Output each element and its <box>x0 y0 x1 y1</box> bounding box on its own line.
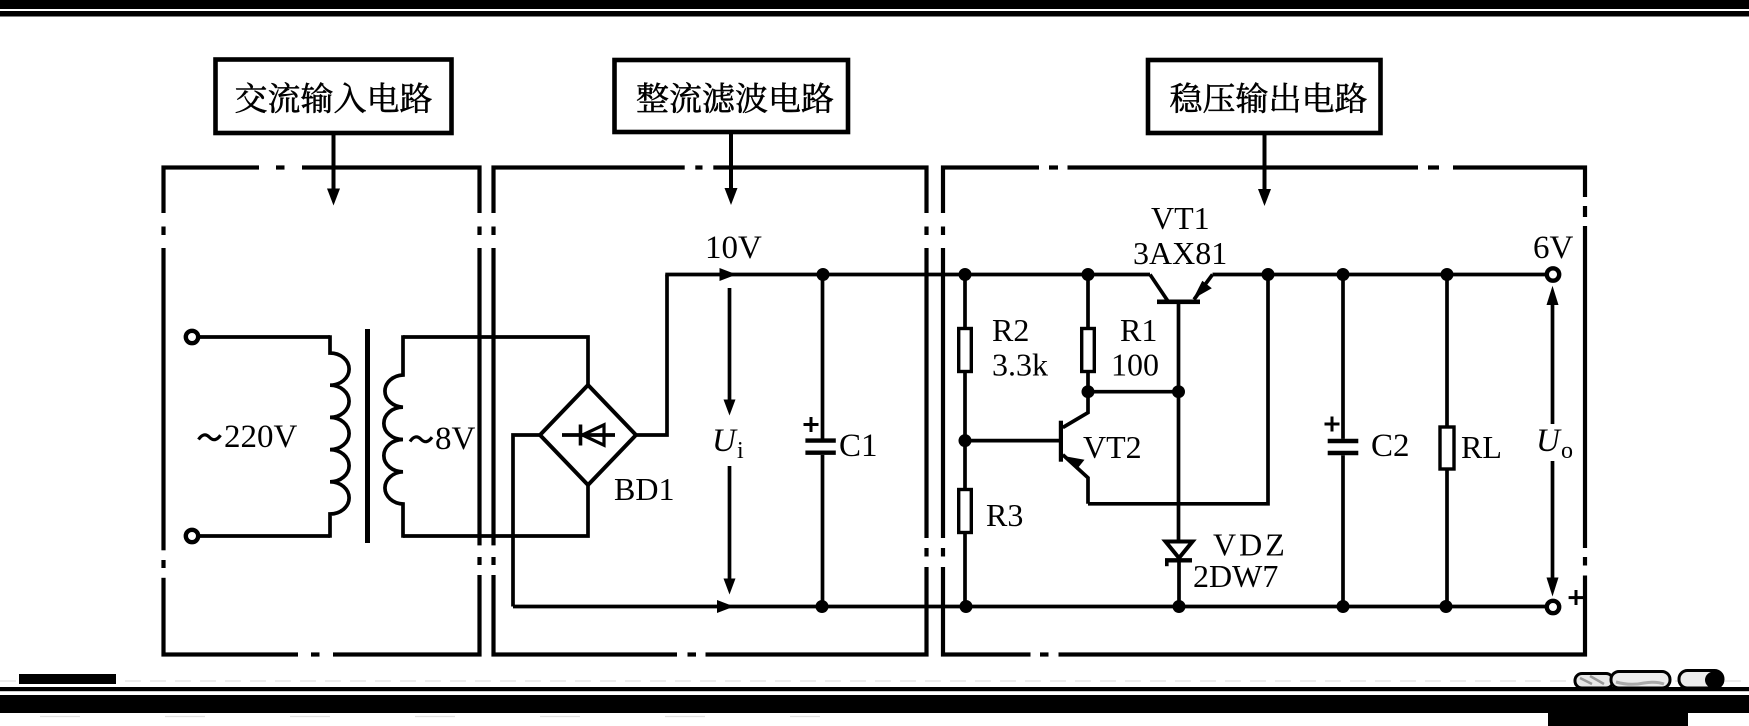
bottom thick bar <box>0 695 1749 713</box>
resistor R1 <box>1082 275 1095 392</box>
junction dot R3 bottom <box>960 600 973 613</box>
Ui indicator arrow upper <box>724 288 736 416</box>
capacitor C1 <box>805 275 835 607</box>
junction dot R1 bottom <box>1082 385 1095 398</box>
svg-text:6V: 6V <box>1533 230 1574 266</box>
title text: zhengliu lvbo dianlu <box>637 82 833 113</box>
svg-text:o: o <box>1561 438 1573 464</box>
label ~8V <box>410 437 432 442</box>
wire secondary top to bridge <box>403 337 588 385</box>
bottom faint dashes <box>40 716 820 718</box>
output terminal top 6V <box>1547 268 1559 280</box>
wire bridge right to top rail <box>636 275 667 436</box>
bottom rail <box>513 605 1546 609</box>
wire bridge left to bottom rail <box>513 435 540 607</box>
svg-text:3AX81: 3AX81 <box>1133 235 1227 271</box>
junction dot VDZ bottom <box>1173 600 1186 613</box>
junction dot C1 top <box>817 268 830 281</box>
transformer T primary winding <box>330 335 349 537</box>
section box: AC input circuit <box>160 164 483 658</box>
eraser icon middle piece <box>1611 672 1670 689</box>
transformer T secondary winding <box>384 335 403 537</box>
junction dot R1 top <box>1082 268 1095 281</box>
bottom small black bar left <box>19 674 116 684</box>
section box: rectifier filter circuit <box>490 164 930 658</box>
svg-text:100: 100 <box>1111 347 1159 383</box>
junction dot R2 top <box>959 268 972 281</box>
bottom thin rule <box>0 687 1749 691</box>
junction dot C2 top <box>1337 268 1350 281</box>
resistor RL <box>1440 275 1454 607</box>
C1 plus sign <box>804 417 819 432</box>
junction dot RL top <box>1441 268 1454 281</box>
output terminal bottom <box>1547 601 1559 613</box>
terminal circle input top <box>186 331 198 343</box>
label box: AC input circuit title <box>216 60 452 134</box>
junction dot feedback top <box>1262 268 1275 281</box>
top rail (right of VT1) <box>1213 273 1547 277</box>
junction dot R2/R3/VT2 base <box>959 434 972 447</box>
svg-text:8V: 8V <box>435 421 476 457</box>
bridge rectifier BD1 diamond <box>540 385 636 485</box>
chalk icon right <box>1679 671 1723 689</box>
arrow from AC input label to section 1 <box>327 133 340 206</box>
eraser icon left piece <box>1575 674 1613 689</box>
label ~220V <box>199 435 221 440</box>
top rail 10V (left of VT1) <box>665 273 1150 277</box>
junction dot RL bottom <box>1440 600 1453 613</box>
svg-text:3.3k: 3.3k <box>992 347 1048 383</box>
svg-text:220V: 220V <box>224 419 298 455</box>
capacitor C2 <box>1328 275 1359 607</box>
svg-text:10V: 10V <box>705 230 762 266</box>
wire primary bottom <box>199 534 330 538</box>
svg-text:BD1: BD1 <box>614 471 674 507</box>
Uo indicator arrow <box>1547 286 1559 597</box>
svg-text:U: U <box>712 423 738 459</box>
terminal circle input bottom <box>186 530 198 542</box>
BD1 inner diode <box>562 425 615 446</box>
svg-text:R1: R1 <box>1120 312 1157 348</box>
transformer core <box>365 329 370 543</box>
top border double bar <box>0 0 1749 9</box>
wire primary top <box>199 335 330 339</box>
wire R1 bottom to VT1 base <box>1088 390 1179 394</box>
section box: regulated output circuit <box>940 164 1589 658</box>
svg-text:R2: R2 <box>992 312 1029 348</box>
title text: wenya shuchu dianlu <box>1170 82 1366 113</box>
bottom right extension block <box>1548 711 1688 726</box>
svg-text:RL: RL <box>1461 429 1502 465</box>
top rail arrow <box>720 268 737 281</box>
C2 plus sign <box>1325 417 1340 432</box>
svg-text:2DW7: 2DW7 <box>1193 558 1278 594</box>
zener diode VDZ <box>1165 392 1193 607</box>
svg-text:R3: R3 <box>986 497 1023 533</box>
resistor R2 <box>959 275 972 441</box>
svg-text:U: U <box>1536 423 1562 459</box>
junction dot C1 bottom <box>816 600 829 613</box>
arrow from rectifier label to section 2 <box>725 132 738 205</box>
bottom gray guide line <box>0 680 1749 682</box>
svg-text:VT2: VT2 <box>1083 429 1142 465</box>
bottom rail arrow <box>717 600 734 613</box>
junction dot C2 bottom <box>1337 600 1350 613</box>
wire VT2 emitter feedback to output rail <box>1088 275 1268 504</box>
svg-text:C1: C1 <box>839 428 878 464</box>
transistor VT1 <box>1150 275 1213 392</box>
Ui indicator arrow lower <box>724 466 736 595</box>
svg-text:C2: C2 <box>1371 428 1410 464</box>
transistor VT2 <box>965 392 1088 504</box>
label box: rectifier filter title <box>615 60 849 132</box>
svg-text:i: i <box>737 438 744 464</box>
title text: jiaoliu shuru dianlu <box>236 82 432 113</box>
junction dot VT1 base node <box>1172 385 1185 398</box>
label box: regulated output title <box>1148 60 1381 133</box>
svg-text:VT1: VT1 <box>1151 200 1210 236</box>
wire secondary bottom to bridge <box>403 485 588 536</box>
arrow from regulated label to section 3 <box>1258 133 1271 206</box>
plus sign at bottom output <box>1569 590 1584 605</box>
resistor R3 <box>959 441 972 607</box>
